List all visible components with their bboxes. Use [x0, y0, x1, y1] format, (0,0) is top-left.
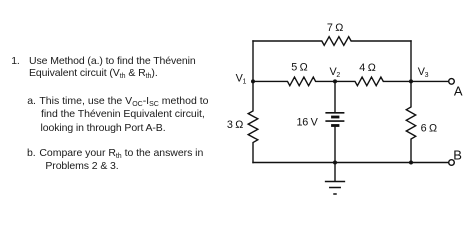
svg-text:A: A — [454, 83, 463, 98]
svg-text:16 V: 16 V — [296, 116, 318, 128]
svg-text:V1: V1 — [236, 72, 247, 85]
svg-text:6 Ω: 6 Ω — [421, 122, 437, 134]
svg-text:V3: V3 — [418, 66, 429, 79]
svg-text:V2: V2 — [330, 66, 341, 79]
svg-text:B: B — [453, 148, 462, 163]
svg-text:7 Ω: 7 Ω — [327, 22, 343, 34]
svg-text:5 Ω: 5 Ω — [291, 61, 307, 73]
svg-text:4 Ω: 4 Ω — [359, 62, 375, 74]
svg-text:3 Ω: 3 Ω — [227, 119, 243, 131]
